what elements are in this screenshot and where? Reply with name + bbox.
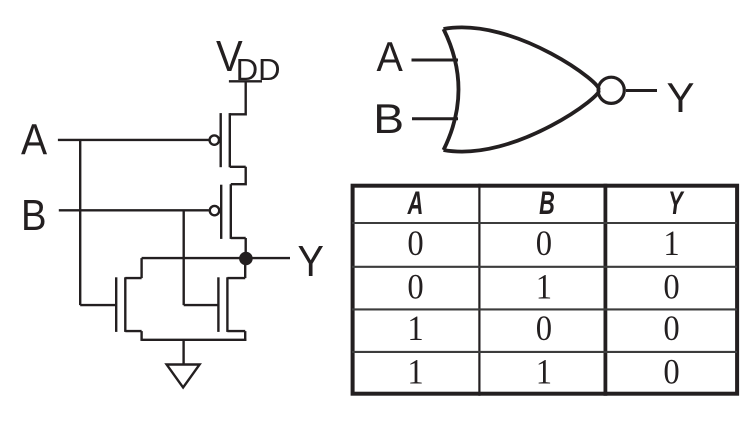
wire gate input B [412,117,458,120]
wire Q4 source down [244,331,246,341]
svg-text:0: 0 [663,310,679,349]
svg-text:Y: Y [667,74,695,121]
transistor Q2 (PMOS, gate B) [210,184,246,239]
wire B to Q4 gate [184,304,218,306]
truth table grid [352,184,737,396]
svg-text:Y: Y [298,236,324,285]
wire A branch down [79,140,81,305]
wire Q3 source down [140,331,142,341]
svg-text:0: 0 [536,225,552,264]
wire ground stem [182,340,184,364]
svg-text:B: B [21,191,47,240]
svg-text:B: B [373,96,404,143]
svg-text:0: 0 [407,225,423,264]
svg-text:0: 0 [536,310,552,349]
wire Q3 drain up to Y [140,258,142,278]
wire source rail to ground [142,339,247,341]
wire input B [59,209,209,211]
svg-text:Y: Y [668,184,685,220]
transistor Q4 (NMOS right, gate B) [218,277,245,332]
transistor Q3 (NMOS left, gate A) [116,277,141,332]
table row 3 values 1 0 0 [407,310,679,349]
power rail VDD [229,80,262,82]
wire Q4 drain up to Y node [244,258,246,278]
svg-text:B: B [539,184,555,220]
table row 2 values 0 1 0 [407,268,679,307]
wire output Y [142,257,290,259]
wire gate output Y [626,89,657,92]
wire gate input A [412,59,459,62]
svg-text:1: 1 [536,268,552,307]
wire VDD to Q1 source [230,81,246,114]
NOR gate U1 inversion bubble [598,77,624,103]
wire B branch down [182,210,184,305]
svg-text:A: A [21,114,47,164]
table row 4 values 1 1 0 [407,353,679,392]
wire input A [58,139,209,141]
NOR gate U1 body [444,27,599,151]
svg-text:0: 0 [663,268,679,307]
wire Q2 drain to output node [244,238,246,258]
svg-text:1: 1 [407,310,423,349]
svg-text:0: 0 [407,268,423,307]
svg-text:1: 1 [407,353,423,392]
svg-text:0: 0 [663,353,679,392]
svg-text:A: A [377,33,404,80]
wire Q1 drain to Q2 source [231,167,246,184]
junction node Y (dot) [239,252,253,266]
ground symbol [167,365,200,388]
table row 1 values 0 0 1 [407,225,679,264]
net label VDD [216,31,280,87]
transistor Q1 (PMOS, gate A) [210,113,246,167]
wire A to Q3 gate [80,304,115,306]
svg-text:1: 1 [536,353,552,392]
svg-text:A: A [407,184,424,220]
svg-text:1: 1 [663,225,679,264]
